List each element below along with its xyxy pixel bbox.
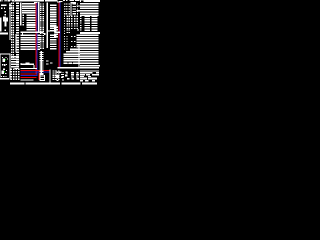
connector stem (5, 22, 7, 27)
LED box bottom dashed border (1, 76, 7, 77)
toolbar white band left (0, 0, 44, 2)
U3 pin name stripes (50, 5, 57, 32)
wire tick right (44, 33, 46, 35)
connector top dots (5, 11, 7, 13)
bus top cap T (34, 2, 38, 3)
canvas background (0, 0, 100, 85)
U5 top right blob (71, 2, 76, 3)
U1 wide pin rows lower (11, 56, 19, 67)
white wire y68 left segment (21, 68, 38, 69)
toolbar white band mid (45, 0, 58, 1)
terminal grid block (52, 70, 59, 80)
U4 ladder vertical (41, 51, 42, 76)
left text dashes row2 (1, 8, 3, 10)
netlist mid band dots (80, 16, 97, 31)
U5 pin dot grid mid (66, 16, 78, 30)
V4 top cap (59, 1, 62, 2)
LED D2 green indicator (4, 71, 5, 72)
thick divider line2 (80, 65, 100, 67)
rails over stripes blue (37, 34, 38, 51)
left text dashes row1 (1, 5, 7, 6)
red rail horizontal H5 (21, 77, 37, 78)
connector pin dot grid bottom-left (11, 69, 20, 81)
U3 body edge bottom dash (47, 31, 50, 32)
LED D1 symbol (2, 57, 8, 62)
small dash a (46, 60, 48, 61)
connector dot (5, 30, 7, 32)
toolbar dashes right-mid (63, 0, 65, 1)
LED box right border / wire (10, 54, 11, 80)
status text marks left (56, 72, 79, 80)
dash above dot grid (15, 68, 19, 69)
toolbar right block (80, 0, 100, 2)
junction vertical wire (50, 69, 51, 82)
LED box left border (0, 54, 2, 78)
power rail bus blue vertical V2 (37, 2, 38, 76)
connector block solid (3, 18, 8, 22)
left wire node dashes (9, 5, 12, 6)
U2 pin rungs (22, 15, 24, 26)
red rail horizontal H3 (21, 73, 37, 74)
power rail blue vertical V4 (59, 2, 60, 67)
lower-left stripe extensions x63-80 (70, 49, 80, 51)
netlist rows band3 (80, 49, 99, 64)
left horizontal bar (0, 32, 8, 34)
long horizontal wire y67 (58, 67, 81, 68)
bottom window bar (10, 83, 97, 85)
list icon box (40, 74, 46, 81)
net name stripes band (over rails) (20, 35, 40, 50)
long horizontal wire under U2 (21, 32, 44, 34)
red rail bottom horizontal stub (55, 32, 61, 33)
netlist rows left extensions (77, 5, 80, 6)
U3 pin number dots (40, 3, 44, 48)
left vertical wire x10 (10, 3, 11, 40)
LED D2 symbol (1, 69, 7, 75)
power rail red vertical V3 (58, 2, 59, 67)
U2 left body edge (20, 3, 21, 26)
label text between LEDs (2, 64, 7, 66)
stripes left of red rail (54, 27, 58, 38)
red rail horizontal H1 (21, 70, 50, 71)
U3 body edge lower (47, 33, 48, 49)
wire junction vertical x34 (34, 65, 35, 69)
LED D1 green indicator (5, 59, 6, 60)
left bottom white bar (0, 78, 9, 80)
U5 pin dot grid upper (64, 3, 78, 14)
V3 top cap (57, 1, 61, 2)
keyed wire with bump (20, 64, 34, 65)
blue rail horizontal H4 (21, 75, 38, 76)
U1 col B body edge lower (16, 34, 17, 53)
netlist text block rows top (80, 3, 99, 16)
row under divider (80, 67, 99, 68)
U2 pin name stripes upper (22, 3, 36, 14)
U3 body edge (47, 3, 48, 33)
left border vertical of lower block (79, 44, 80, 68)
netlist rows band2 (77, 35, 99, 48)
U2 pin name stripes lower (27, 15, 36, 31)
U2 right body edge (38, 2, 39, 32)
white wire y79 stub (20, 79, 33, 80)
left edge white bar (0, 18, 2, 32)
LED box top border (1, 54, 11, 55)
status rows right (80, 70, 99, 81)
U1 pin name column B (16, 3, 19, 66)
blue rail horizontal H2 (21, 72, 50, 73)
power rail bus red vertical V1 (34, 2, 37, 74)
U4 ladder rungs (40, 52, 44, 80)
U5 sparse dots lower (64, 36, 76, 50)
small dash b (50, 62, 52, 63)
power rail red vertical V5 (37, 70, 40, 80)
full width divider line (80, 32, 100, 34)
wire tick left (22, 33, 23, 34)
F-shape dash (46, 63, 48, 64)
small dash right of grid (77, 29, 79, 30)
U1 pin number column A (11, 2, 14, 67)
U5 body edge (71, 2, 72, 16)
rails over stripes red (34, 34, 37, 51)
